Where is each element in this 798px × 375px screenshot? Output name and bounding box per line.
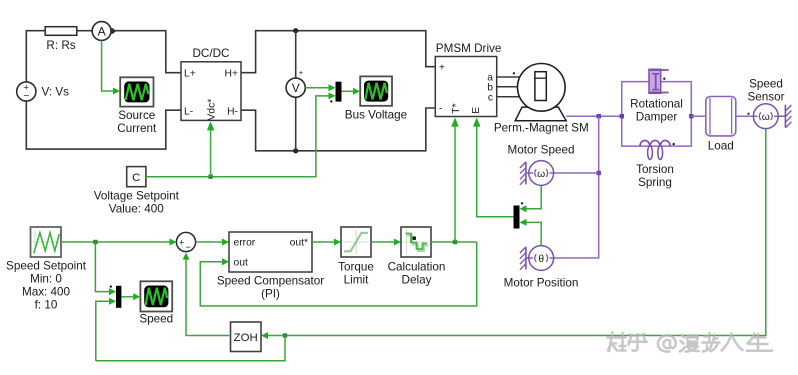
subsystem U2 PMSM Drive block bbox=[435, 42, 501, 117]
wire DC/DC H+ to top rail bbox=[241, 31, 435, 73]
svg-text:ZOH: ZOH bbox=[234, 332, 258, 344]
sensor S3 Motor Position icon bbox=[529, 246, 554, 271]
spring K1 torsion spring icon bbox=[640, 140, 675, 159]
green wire compensator to torque limit bbox=[312, 241, 334, 243]
green wire torque limit to calculation delay bbox=[371, 241, 394, 243]
scope Speed bbox=[140, 281, 172, 311]
resistor R1 body bbox=[45, 27, 77, 36]
svg-text:+: + bbox=[439, 63, 445, 74]
shaft wire sensor branch down to motor sensors bbox=[554, 116, 599, 258]
converter U1 DC/DC block bbox=[181, 47, 241, 121]
wire resistor to ammeter bbox=[77, 30, 92, 32]
svg-text:-: - bbox=[439, 104, 442, 115]
shaft wire branch to motor speed sensor bbox=[554, 172, 599, 174]
svg-text:E: E bbox=[471, 107, 482, 114]
svg-text:Min: 0: Min: 0 bbox=[30, 273, 62, 286]
zoh U4 block bbox=[231, 322, 262, 352]
green wire sum to compensator error bbox=[196, 241, 222, 243]
green wire motor position to mux input 2 bbox=[527, 222, 542, 245]
svg-text:Damper: Damper bbox=[636, 111, 678, 124]
svg-text:c: c bbox=[488, 93, 493, 104]
svg-text:Motor Speed: Motor Speed bbox=[508, 144, 575, 157]
current direction marker bbox=[112, 28, 117, 35]
wire top rail from source to ammeter bbox=[26, 31, 45, 82]
green wire mux to Speed scope bbox=[121, 296, 133, 298]
svg-text:Perm.-Magnet SM: Perm.-Magnet SM bbox=[494, 122, 589, 135]
svg-text:Delay: Delay bbox=[402, 274, 432, 287]
green wire speed sensor down to feedback rail bbox=[285, 129, 766, 336]
shaft wire loop to Load bbox=[691, 115, 706, 117]
ammeter A1 circle bbox=[92, 22, 111, 41]
wire phase a bbox=[497, 76, 520, 78]
wire phase b bbox=[497, 86, 518, 88]
ground mechanical reference left of motor position bbox=[520, 247, 529, 270]
svg-text:Speed: Speed bbox=[749, 78, 783, 91]
delay block Calculation Delay bbox=[401, 227, 431, 257]
svg-text:Spring: Spring bbox=[638, 176, 672, 189]
svg-text:Rotational: Rotational bbox=[630, 98, 683, 111]
svg-text:Max: 400: Max: 400 bbox=[22, 286, 71, 299]
saturation block Torque Limit bbox=[341, 227, 371, 257]
node top rail voltmeter tap bbox=[293, 28, 298, 33]
green wire voltmeter to bus mux input 1 bbox=[305, 87, 328, 89]
svg-text:f: 10: f: 10 bbox=[35, 299, 58, 312]
svg-text:Value: 400: Value: 400 bbox=[109, 203, 165, 216]
node delay output branch bbox=[453, 240, 457, 244]
svg-text:+: + bbox=[179, 238, 184, 248]
svg-text:V: V bbox=[292, 81, 300, 95]
motor M1 Perm.-Magnet SM icon bbox=[515, 64, 566, 121]
green wire setpoint to sum bbox=[61, 241, 170, 243]
scope Bus Voltage bbox=[360, 76, 392, 105]
svg-text:Torque: Torque bbox=[338, 261, 374, 274]
svg-text:T*: T* bbox=[451, 103, 462, 113]
svg-text:Voltage Setpoint: Voltage Setpoint bbox=[94, 190, 180, 203]
svg-text:Current: Current bbox=[117, 122, 157, 135]
green wire delay output to junction bbox=[431, 241, 477, 243]
node sensor branch bbox=[597, 171, 601, 175]
svg-text:ω: ω bbox=[537, 169, 545, 180]
svg-text:L+: L+ bbox=[184, 68, 196, 79]
svg-text:Limit: Limit bbox=[344, 274, 369, 287]
svg-text:−: − bbox=[186, 242, 191, 252]
damper B1 icon bbox=[649, 69, 669, 93]
wire ammeter to DC/DC L+ corner bbox=[111, 31, 181, 73]
svg-text:Load: Load bbox=[708, 140, 734, 153]
green wire node into ZOH bbox=[268, 335, 283, 337]
shaft wire Load to speed sensor bbox=[736, 115, 754, 117]
ground mechanical reference right of speed sensor bbox=[778, 105, 791, 128]
svg-text:PMSM Drive: PMSM Drive bbox=[436, 42, 502, 55]
node feedback rail ZOH tap bbox=[283, 333, 287, 337]
svg-text:θ: θ bbox=[538, 254, 544, 265]
damper loop wires bbox=[622, 82, 692, 147]
svg-text:H+: H+ bbox=[225, 68, 238, 79]
svg-text:(PI): (PI) bbox=[261, 287, 280, 300]
svg-text:V: Vs: V: Vs bbox=[42, 86, 70, 99]
node shaft sensor tap bbox=[597, 114, 601, 118]
voltmeter VM1 circle bbox=[286, 78, 305, 97]
green wire junction to Vdc* port bbox=[210, 130, 212, 177]
svg-text:out: out bbox=[234, 258, 248, 269]
controller U3 Speed Compensator block bbox=[229, 232, 312, 272]
wire voltmeter branch bbox=[295, 31, 297, 78]
green wire anti-windup feedback to compensator out bbox=[200, 242, 476, 306]
voltage source V1 circle bbox=[17, 82, 36, 101]
green wire junction up to PMSM T* port bbox=[454, 126, 456, 242]
node damper loop right bbox=[689, 114, 693, 118]
svg-text:−: − bbox=[23, 91, 29, 102]
constant C1 block bbox=[127, 167, 146, 187]
mux bus voltage bar bbox=[336, 82, 342, 102]
green wire setpoint branch to speed mux input 1 bbox=[95, 242, 109, 292]
watermark zhihu bbox=[608, 333, 773, 352]
shaft wire motor to damper loop bbox=[566, 115, 622, 117]
svg-text:DC/DC: DC/DC bbox=[192, 47, 229, 60]
green wire feedback to speed mux input 2 bbox=[96, 301, 109, 361]
ground mechanical reference left of motor speed bbox=[520, 162, 529, 185]
green wire bus mux to Bus Voltage scope bbox=[342, 90, 354, 92]
green wire C to Vdc* junction and bus mux input 2 bbox=[146, 96, 329, 177]
node setpoint branch bbox=[93, 240, 97, 244]
svg-text:error: error bbox=[234, 238, 256, 249]
green wire ammeter to Source Current scope bbox=[102, 41, 113, 92]
svg-text:H-: H- bbox=[227, 107, 238, 118]
sum block bbox=[176, 232, 195, 252]
svg-text:+: + bbox=[299, 68, 304, 77]
svg-text:Sensor: Sensor bbox=[747, 91, 784, 104]
node bottom rail voltmeter tap bbox=[293, 148, 298, 153]
scope Source Current bbox=[120, 77, 153, 106]
svg-text:Torsion: Torsion bbox=[636, 163, 674, 176]
svg-text:out*: out* bbox=[290, 238, 308, 249]
svg-text:Vdc*: Vdc* bbox=[207, 99, 218, 121]
sensor S2 Motor Speed icon bbox=[529, 161, 554, 186]
wire source bottom loop to DC/DC L- bbox=[26, 101, 181, 149]
wire phase c bbox=[497, 96, 520, 98]
svg-text:Motor Position: Motor Position bbox=[504, 277, 579, 290]
wire DC/DC H- to bottom rail bbox=[241, 108, 435, 151]
green wire mux to PMSM E port bbox=[477, 126, 514, 217]
svg-text:ω: ω bbox=[762, 112, 770, 123]
green wire node down to speed mux feedback bbox=[96, 336, 285, 361]
svg-text:Calculation: Calculation bbox=[388, 261, 446, 274]
svg-text:Speed Compensator: Speed Compensator bbox=[217, 274, 324, 287]
svg-text:R: Rs: R: Rs bbox=[46, 39, 75, 52]
node C branch junction bbox=[208, 175, 212, 179]
node damper loop left bbox=[620, 114, 624, 118]
svg-text:Speed Setpoint: Speed Setpoint bbox=[6, 260, 87, 273]
signal source Speed Setpoint block bbox=[31, 227, 62, 257]
mux motor feedback bar bbox=[514, 206, 520, 229]
green wire ZOH output to sum minus input bbox=[186, 259, 231, 336]
svg-text:Bus Voltage: Bus Voltage bbox=[345, 108, 407, 121]
mux speed scope bar bbox=[116, 286, 121, 308]
svg-text:Source: Source bbox=[118, 109, 155, 122]
sensor S1 Speed Sensor icon bbox=[753, 104, 778, 129]
green wire motor speed to mux input 1 bbox=[527, 185, 542, 208]
svg-text:C: C bbox=[132, 172, 140, 184]
svg-text:L-: L- bbox=[184, 107, 193, 118]
inertia J1 Load icon bbox=[706, 97, 736, 136]
svg-text:A: A bbox=[98, 24, 106, 38]
svg-text:Speed: Speed bbox=[139, 313, 173, 326]
